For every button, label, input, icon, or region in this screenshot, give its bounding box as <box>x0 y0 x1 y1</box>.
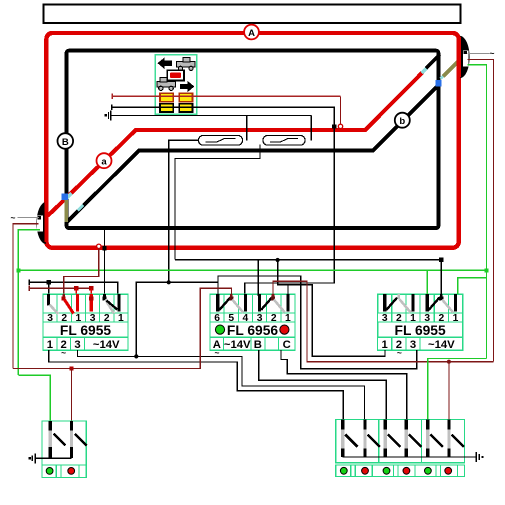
icon stop signal box <box>167 70 184 80</box>
label a inner red track <box>97 153 112 168</box>
insulator blue square bottom-left <box>62 194 68 200</box>
left feed gray wire and tilde <box>18 217 40 219</box>
label B inner loop <box>58 133 74 149</box>
module FL6955-left terminal wire art <box>49 294 119 314</box>
thin black wire H1 to module via red line <box>112 107 335 296</box>
svg-text:B: B <box>254 339 262 351</box>
net L1 left cell3 to bank bar2 <box>78 350 365 420</box>
net cellB to bank bar3 <box>259 350 387 420</box>
switch box common wire and ground clip left <box>35 457 71 459</box>
svg-text:~: ~ <box>61 347 66 357</box>
net H260 lens2 to right module cell5 <box>175 259 441 261</box>
svg-text:~14V: ~14V <box>224 339 251 351</box>
svg-text:FL 6955: FL 6955 <box>395 323 446 338</box>
svg-text:3: 3 <box>410 339 416 351</box>
track a inner red line with crossover diagonals <box>48 72 423 216</box>
module FL 6955 outline <box>378 294 463 350</box>
icon train lower left <box>157 78 176 91</box>
icon yellow indicator boxes <box>160 93 173 101</box>
net V3 dot and path to right module bottom cell1 <box>276 258 280 262</box>
svg-text:~: ~ <box>11 213 16 223</box>
lens1 left wire <box>169 140 199 282</box>
svg-text:A: A <box>248 28 255 39</box>
left feed green wire <box>18 230 40 375</box>
green drop to right module cell4 <box>426 270 428 294</box>
black feed from inner loop to cell5 <box>104 230 106 296</box>
net NET1 track drops to right module bottom cell3 <box>136 276 416 369</box>
ground clip top <box>111 114 311 116</box>
lens2 left wire <box>175 145 260 260</box>
long green bus line <box>18 269 486 271</box>
icon right arrow <box>180 81 194 93</box>
module FL6955-right terminal wire art <box>385 294 456 312</box>
green branch to right module cell6 <box>458 278 487 294</box>
black wire left edge to cells 1 and 6 <box>29 282 117 296</box>
switch bank outline boxes <box>336 420 465 463</box>
net maroon M2 middle cell2 to right feed and bank bar6 <box>273 281 494 362</box>
svg-text:a: a <box>101 157 107 168</box>
switch bank bars <box>341 420 344 458</box>
maroon wire left edge to cells 3 and 4 <box>29 287 91 289</box>
module FL6956 terminal wire art <box>218 294 288 312</box>
module FL 6956 terminal cells <box>210 294 224 313</box>
isolating switch lens 1 <box>199 136 243 146</box>
isolating switch lens 2 <box>263 136 305 146</box>
svg-text:1: 1 <box>453 313 459 324</box>
switch bank leds <box>340 467 347 474</box>
switch bank indicator row <box>336 465 465 477</box>
net cellC to bank bar4 <box>281 350 407 420</box>
svg-text:C: C <box>283 339 291 351</box>
label A outer loop <box>244 25 259 40</box>
module FL 6955 bottom row <box>43 337 57 350</box>
icon train upper right <box>177 58 196 71</box>
track A outer red loop <box>46 33 458 248</box>
net maroon M1 left feed to middle cell5 <box>13 288 232 368</box>
insulator cyan tick top-right red diagonal <box>422 68 427 73</box>
right feed gray wire and tilde <box>468 52 490 54</box>
module FL 6955 number row <box>378 313 392 322</box>
wire drop to lens2 right <box>310 115 312 140</box>
right red loop overdraw <box>457 37 461 77</box>
module FL 6955 terminal cells <box>43 294 57 313</box>
insulator cyan tick top-right black diagonal <box>441 76 444 79</box>
net L2 left cell1 to bank bar1 <box>49 350 344 420</box>
drop to middle cell3 <box>257 260 259 296</box>
block control icon box <box>155 55 197 114</box>
net green right feed to bank bar5 <box>428 359 487 421</box>
svg-text:B: B <box>62 137 69 148</box>
right feed green wire <box>468 65 487 359</box>
left track feed connector oval <box>36 202 45 245</box>
insulator cyan tick bottom-left red diagonal <box>66 193 72 199</box>
svg-text:b: b <box>399 116 405 127</box>
svg-text:6: 6 <box>214 313 220 324</box>
black section of top-right red diagonal <box>426 55 440 69</box>
middle cell6 bar tap <box>217 276 219 296</box>
svg-text:1: 1 <box>47 339 53 351</box>
label b crossover track <box>395 113 410 128</box>
switch bank levers <box>345 435 357 447</box>
insulator cyan tick bottom-left black diagonal <box>78 205 83 210</box>
right track feed connector oval <box>460 36 469 79</box>
svg-text:1: 1 <box>382 339 388 351</box>
module FL 6955 number row <box>43 313 57 322</box>
left feed maroon wire <box>13 224 39 369</box>
middle cell1 bar tap <box>287 285 289 296</box>
switch box bottom-left outline <box>42 421 86 465</box>
legend bar (empty title box) <box>44 5 461 24</box>
svg-text:3: 3 <box>47 313 53 324</box>
switch box bottom-left indicator row <box>42 465 86 478</box>
olive section left edge <box>64 200 67 222</box>
svg-text:FL 6955: FL 6955 <box>60 323 111 338</box>
maroon drop to bank bar6 <box>448 362 450 420</box>
insulator blue square top-right <box>435 80 441 86</box>
net green to left switch bar1 <box>18 375 50 421</box>
track b inner black line with crossover diagonals <box>68 85 439 222</box>
module FL 6956 bottom row <box>210 337 224 350</box>
junction square on outer red line <box>102 246 106 250</box>
switch levers left box <box>54 434 66 446</box>
green led left box <box>46 468 53 475</box>
maroon feed from circle to cell2 <box>64 249 99 297</box>
switch bars left box <box>49 421 52 458</box>
svg-text:3: 3 <box>74 339 80 351</box>
module FL 6955 terminal cells <box>378 294 392 313</box>
wire drop to lens1 right <box>246 115 248 140</box>
module FL 6956 outline <box>210 294 295 350</box>
module FL 6956 number row <box>210 313 224 322</box>
olive diagonal to right feed <box>443 62 458 77</box>
right feed maroon wire <box>468 59 494 361</box>
switch bank common wire and ground clip right <box>343 456 477 458</box>
icon left arrow <box>158 57 172 69</box>
svg-text:~14V: ~14V <box>428 339 455 351</box>
thin red wire to inner red track <box>112 95 340 97</box>
svg-text:~14V: ~14V <box>93 339 120 351</box>
junction square on inner red line <box>332 124 336 128</box>
svg-text:~: ~ <box>397 347 402 357</box>
track B inner black loop <box>67 51 439 229</box>
maroon drop to left switch bar2 <box>70 368 72 421</box>
module FL 6956 indicator leds <box>215 325 224 334</box>
terminal circle on outer red line bottom <box>97 244 101 248</box>
module FL 6955 bottom row <box>378 337 392 350</box>
svg-text:FL 6956: FL 6956 <box>227 323 278 338</box>
left red loop overdraw <box>44 202 48 242</box>
module FL 6955 outline <box>43 294 128 350</box>
terminal circle on inner red line <box>338 124 342 128</box>
svg-text:1: 1 <box>118 313 124 324</box>
svg-text:~: ~ <box>490 48 495 58</box>
svg-text:3: 3 <box>382 313 388 324</box>
red led left box <box>68 468 75 475</box>
svg-text:1: 1 <box>285 313 291 324</box>
